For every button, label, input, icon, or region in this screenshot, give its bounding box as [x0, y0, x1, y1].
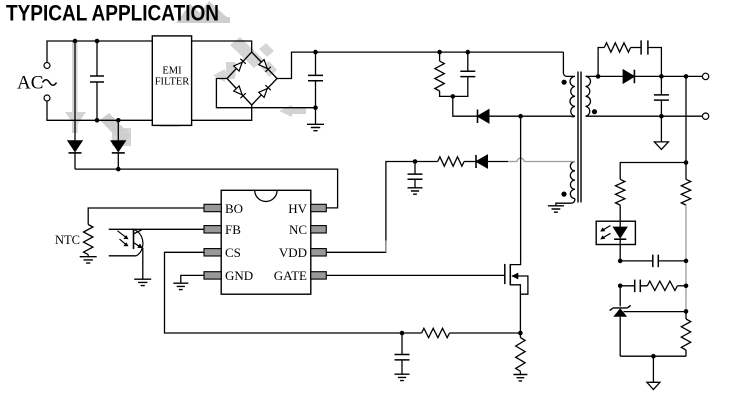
- resistor current sense: [516, 338, 525, 372]
- wire GND pin: [181, 275, 204, 283]
- secondary phase dot: [592, 109, 597, 114]
- wire BO to NTC: [88, 208, 204, 225]
- scan artifact vertical band at AC line: [65, 41, 86, 133]
- wire EMI to bridge top: [192, 41, 252, 52]
- output terminal +: [702, 73, 708, 79]
- resistor lower right: [681, 319, 690, 350]
- wire bottom rail secondary: [620, 355, 686, 357]
- svg-text:NTC: NTC: [55, 233, 80, 247]
- capacitor comp rung1: [618, 259, 623, 264]
- capacitor CS filter: [401, 333, 403, 355]
- wire bridge plus to DC rail: [277, 52, 563, 78]
- wire ref rung3: [624, 311, 687, 313]
- wire aux bottom to ground: [556, 199, 575, 206]
- output terminal -: [702, 113, 708, 119]
- resistor aux: [415, 161, 438, 163]
- resistor CS filter: [422, 328, 450, 337]
- capacitor clamp C: [467, 52, 469, 71]
- wire CS to sense network: [165, 252, 422, 333]
- pin BO: [204, 204, 221, 211]
- AC terminal top: [44, 63, 50, 69]
- primary phase dot: [562, 80, 567, 85]
- svg-text:FILTER: FILTER: [155, 77, 190, 88]
- zener/TL431: [619, 286, 621, 307]
- wire secondary bottom rail: [586, 115, 703, 117]
- diode output rectifier: [623, 70, 634, 84]
- emitter lead to ground: [142, 248, 144, 279]
- scan artifact small arrow under bridge cap rail: [279, 105, 306, 117]
- pin HV: [311, 204, 327, 211]
- pin GATE: [311, 272, 327, 279]
- ground VDD cap: [408, 188, 423, 194]
- wire tee to opto branch: [620, 163, 686, 180]
- wire primary bottom lead: [521, 115, 575, 118]
- ground opto emitter: [134, 279, 151, 285]
- ground CS cap: [395, 374, 410, 380]
- wire AC bottom stub: [47, 101, 152, 120]
- ground GND pin: [173, 283, 188, 289]
- bridge diode bottom-left: [234, 86, 243, 95]
- capacitor sec snubber: [631, 47, 642, 49]
- transformer secondary winding: [586, 76, 591, 116]
- wire bridge minus: [216, 79, 315, 108]
- diode D1 from line: [74, 41, 76, 141]
- svg-text:HV: HV: [288, 201, 307, 216]
- resistor upper feedback right: [685, 163, 687, 180]
- transformer core: [578, 72, 581, 203]
- diode clamp: [453, 96, 478, 116]
- svg-text:GATE: GATE: [274, 268, 307, 283]
- pin CS: [204, 249, 221, 256]
- bridge diode bottom-right: [259, 89, 268, 98]
- pin VDD: [311, 249, 327, 256]
- svg-text:TYPICAL APPLICATION: TYPICAL APPLICATION: [6, 1, 219, 26]
- wire AC top stub: [47, 41, 152, 63]
- capacitor+resistor comp rung2: [618, 284, 623, 289]
- ground arrow secondary: [660, 116, 662, 142]
- scan artifact arrow at bridge left vertex: [213, 62, 236, 82]
- bridge rectifier diamond: [227, 52, 277, 105]
- optocoupler phototransistor: [109, 228, 204, 230]
- pin NC: [311, 226, 327, 233]
- wire right branch (grey scanned): [685, 205, 687, 311]
- transistor Q1 MOSFET: [504, 264, 506, 284]
- bridge diode top-right: [259, 60, 268, 69]
- MOSFET body diode line: [512, 276, 528, 294]
- diode D2 from neutral: [117, 120, 119, 141]
- ground arrow bottom: [652, 356, 654, 382]
- wire aux (grey) with hop: [488, 161, 509, 163]
- wire Vout sense drop: [685, 76, 687, 162]
- wire secondary top lead: [586, 75, 624, 77]
- resistor sec snubber: [598, 48, 604, 77]
- ground sense resistor: [513, 375, 527, 381]
- transformer primary winding: [563, 52, 575, 76]
- scan artifact streaks in EMI filter box: [155, 85, 180, 127]
- capacitor bulk C across DC: [315, 52, 317, 75]
- svg-text:VDD: VDD: [279, 245, 307, 260]
- transformer aux winding: [570, 162, 575, 199]
- svg-text:CS: CS: [225, 245, 241, 260]
- pin GND: [204, 272, 221, 279]
- AC terminal bottom: [44, 95, 50, 101]
- LED diode: [619, 221, 621, 227]
- LED emission arrows: [602, 226, 611, 239]
- EMI filter block: [152, 36, 191, 126]
- wire VDD: [326, 238, 386, 252]
- svg-text:FB: FB: [225, 222, 241, 237]
- wire EMI to bridge bottom: [192, 105, 252, 120]
- optocoupler LED box: [596, 221, 635, 244]
- aux phase dot: [561, 192, 566, 197]
- output capacitor: [660, 76, 662, 95]
- svg-text:NC: NC: [289, 222, 307, 237]
- resistor upper feedback left: [616, 179, 625, 205]
- svg-text:GND: GND: [225, 268, 253, 283]
- svg-text:BO: BO: [225, 201, 243, 216]
- ground NTC: [80, 257, 97, 263]
- diode aux: [464, 161, 476, 163]
- svg-text:EMI: EMI: [162, 66, 182, 77]
- scan artifact grey blob over title: [176, 1, 230, 23]
- resistor clamp R: [439, 52, 441, 61]
- svg-text:AC: AC: [17, 73, 43, 94]
- ground bulk cap: [307, 124, 324, 130]
- resistor NTC: [84, 225, 93, 255]
- scan artifact band on bridge top-left edge: [230, 37, 277, 77]
- ground aux winding: [548, 206, 564, 212]
- scan artifact diagonal band near diode D2: [100, 113, 131, 146]
- pin FB: [204, 226, 221, 233]
- wire GATE: [326, 274, 505, 276]
- bridge diode top-left: [234, 62, 243, 71]
- op IC U1 body: [221, 190, 311, 294]
- capacitor X-cap across AC line: [96, 41, 98, 76]
- IC notch: [255, 190, 277, 201]
- capacitor VDD: [413, 159, 418, 164]
- light arrows into transistor: [118, 231, 126, 245]
- wire HV startup feed: [75, 169, 338, 208]
